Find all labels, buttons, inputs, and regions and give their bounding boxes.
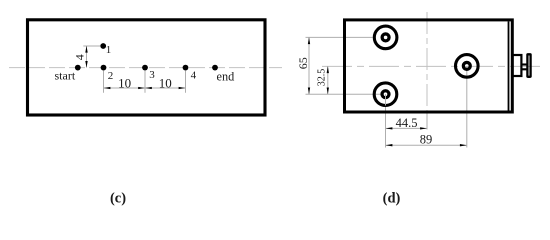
point 3 — [142, 65, 148, 71]
svg-text:start: start — [55, 69, 76, 83]
arrow right dim 44.5 — [420, 127, 427, 129]
arrow left at point2 ext — [104, 87, 111, 89]
arrow up dim 65 — [308, 37, 310, 44]
svg-text:4: 4 — [191, 69, 197, 81]
crosshair below bottom-left hole center — [385, 94, 387, 105]
dimension line 32.5 — [327, 66, 329, 94]
arrow down dim 32.5 — [327, 88, 329, 95]
arrow down dim 65 — [308, 88, 310, 95]
connector stem bottom line — [521, 68, 528, 70]
extension line below right hole — [466, 66, 468, 147]
extension line at bottom hole center (for dims 65/32.5) — [306, 93, 381, 95]
svg-text:end: end — [217, 69, 235, 83]
dimension line 65 — [308, 37, 310, 94]
extension line below point 2 — [103, 71, 105, 93]
centerline of figure (c) — [9, 67, 282, 69]
arrow left dim 44.5 — [386, 127, 393, 129]
svg-text:(c): (c) — [110, 190, 126, 206]
hole top-left: outer ring — [374, 26, 397, 49]
svg-text:44.5: 44.5 — [396, 116, 418, 130]
svg-text:89: 89 — [420, 133, 433, 147]
point end — [212, 65, 218, 71]
arrow right at point3 ext (from left span) — [138, 87, 145, 89]
connector stem top line — [521, 63, 528, 65]
arrow left at point3 ext (from right span) — [145, 87, 152, 89]
arrow up of dim 4 — [85, 46, 87, 53]
dimension line for dim 4 — [86, 46, 88, 68]
point start — [75, 65, 81, 71]
hole bottom-left: outer ring — [374, 83, 397, 106]
arrow right dim 89 — [460, 144, 467, 146]
point 2 — [101, 65, 107, 71]
dimension line 89 — [386, 144, 467, 146]
svg-text:3: 3 — [149, 69, 155, 81]
horizontal centerline of figure (d) — [322, 65, 542, 67]
extension line below bottom-left hole — [385, 94, 387, 147]
extension line below point 4 — [185, 71, 187, 93]
extension line below point 3 — [144, 71, 146, 93]
point 1 — [100, 43, 106, 49]
connector body on right edge — [513, 55, 522, 76]
svg-text:4: 4 — [73, 54, 87, 60]
svg-text:2: 2 — [108, 70, 114, 82]
svg-text:(d): (d) — [383, 190, 401, 206]
hole top-left: inner ring — [382, 34, 389, 41]
inner face line near right edge — [508, 21, 510, 110]
svg-text:1: 1 — [106, 44, 112, 56]
connector knob — [527, 54, 530, 77]
dimension line 10/10 chain — [104, 87, 186, 89]
svg-text:65: 65 — [296, 57, 310, 69]
outline rectangle of figure (c) — [28, 20, 266, 115]
extension line at top hole center (for dim 65) — [306, 36, 373, 38]
point 4 — [183, 65, 189, 71]
svg-text:10: 10 — [118, 75, 131, 90]
svg-text:32.5: 32.5 — [316, 69, 327, 87]
extension line for dim 4 (top, at point 1) — [83, 45, 100, 47]
outline rectangle of figure (d) — [345, 20, 513, 112]
svg-text:10: 10 — [159, 75, 172, 90]
arrow left dim 89 — [386, 144, 393, 146]
extension segment of vertical centerline (for dim 44.5) — [426, 112, 428, 130]
arrow down of dim 4 — [85, 61, 87, 68]
dimension line 44.5 — [386, 127, 428, 129]
hole right: outer ring — [456, 55, 479, 78]
hole right: inner ring — [463, 62, 470, 69]
arrow up dim 32.5 — [327, 66, 329, 73]
hole bottom-left: inner ring — [382, 91, 389, 98]
vertical centerline of figure (d) — [426, 12, 428, 121]
arrow right at point4 ext — [179, 87, 186, 89]
